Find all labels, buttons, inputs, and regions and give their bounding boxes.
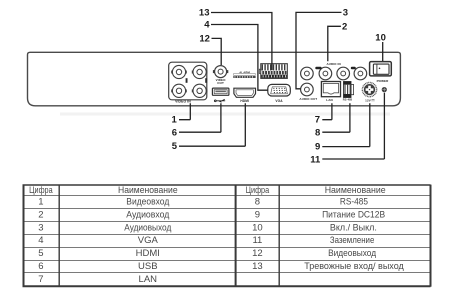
svg-text:1: 1	[172, 115, 178, 126]
svg-text:HDMI: HDMI	[240, 99, 249, 103]
svg-text:9: 9	[255, 210, 260, 221]
svg-text:Тревожные вход/ выход: Тревожные вход/ выход	[304, 261, 404, 272]
svg-text:3: 3	[343, 7, 348, 18]
svg-text:5: 5	[172, 141, 178, 152]
svg-text:Наименование: Наименование	[325, 185, 386, 196]
svg-text:4: 4	[38, 235, 43, 246]
svg-text:LAN: LAN	[139, 274, 158, 285]
svg-text:HDMI: HDMI	[136, 248, 160, 259]
svg-text:12V: 12V	[365, 98, 371, 102]
svg-text:4: 4	[204, 20, 210, 31]
svg-text:10: 10	[375, 32, 386, 43]
svg-text:6: 6	[172, 127, 177, 138]
svg-text:RS-485: RS-485	[340, 197, 368, 208]
svg-text:12: 12	[199, 34, 210, 45]
svg-text:Вкл./ Выкл.: Вкл./ Выкл.	[330, 222, 377, 233]
svg-text:Питание DC12В: Питание DC12В	[322, 210, 385, 221]
svg-text:2: 2	[342, 21, 347, 32]
svg-text:Видеовыход: Видеовыход	[328, 248, 376, 259]
svg-text:1: 1	[38, 197, 43, 208]
svg-text:6: 6	[38, 261, 43, 272]
svg-text:8: 8	[255, 197, 260, 208]
svg-text:POWER: POWER	[377, 79, 390, 83]
svg-text:11: 11	[310, 154, 321, 165]
svg-text:5: 5	[38, 248, 43, 259]
svg-text:Видеовход: Видеовход	[126, 197, 169, 208]
svg-text:7: 7	[315, 115, 320, 126]
svg-text:7: 7	[38, 274, 43, 285]
svg-text:8: 8	[315, 127, 320, 138]
svg-text:RS-485: RS-485	[343, 98, 353, 102]
svg-text:12: 12	[252, 248, 263, 259]
svg-text:Цифра: Цифра	[29, 185, 53, 196]
svg-text:VGA: VGA	[275, 99, 283, 103]
svg-text:Цифра: Цифра	[246, 185, 270, 196]
svg-text:AUDIO IN: AUDIO IN	[326, 62, 340, 66]
svg-text:Заземление: Заземление	[330, 235, 375, 246]
svg-text:OUT: OUT	[217, 81, 224, 85]
svg-text:2: 2	[38, 210, 43, 221]
svg-text:10: 10	[252, 222, 263, 233]
svg-text:Аудиовход: Аудиовход	[126, 210, 169, 221]
svg-text:3: 3	[38, 222, 43, 233]
svg-text:VGA: VGA	[138, 235, 159, 246]
svg-text:Аудиовыход: Аудиовыход	[124, 222, 171, 233]
svg-text:LAN: LAN	[326, 98, 332, 102]
svg-text:AUDIO OUT: AUDIO OUT	[299, 97, 317, 101]
svg-text:13: 13	[199, 7, 210, 18]
svg-text:Наименование: Наименование	[118, 185, 178, 196]
svg-text:USB: USB	[138, 261, 158, 272]
svg-text:VIDEO IN: VIDEO IN	[175, 99, 191, 103]
svg-text:11: 11	[252, 235, 262, 246]
svg-text:9: 9	[315, 141, 320, 152]
svg-text:13: 13	[252, 261, 263, 272]
